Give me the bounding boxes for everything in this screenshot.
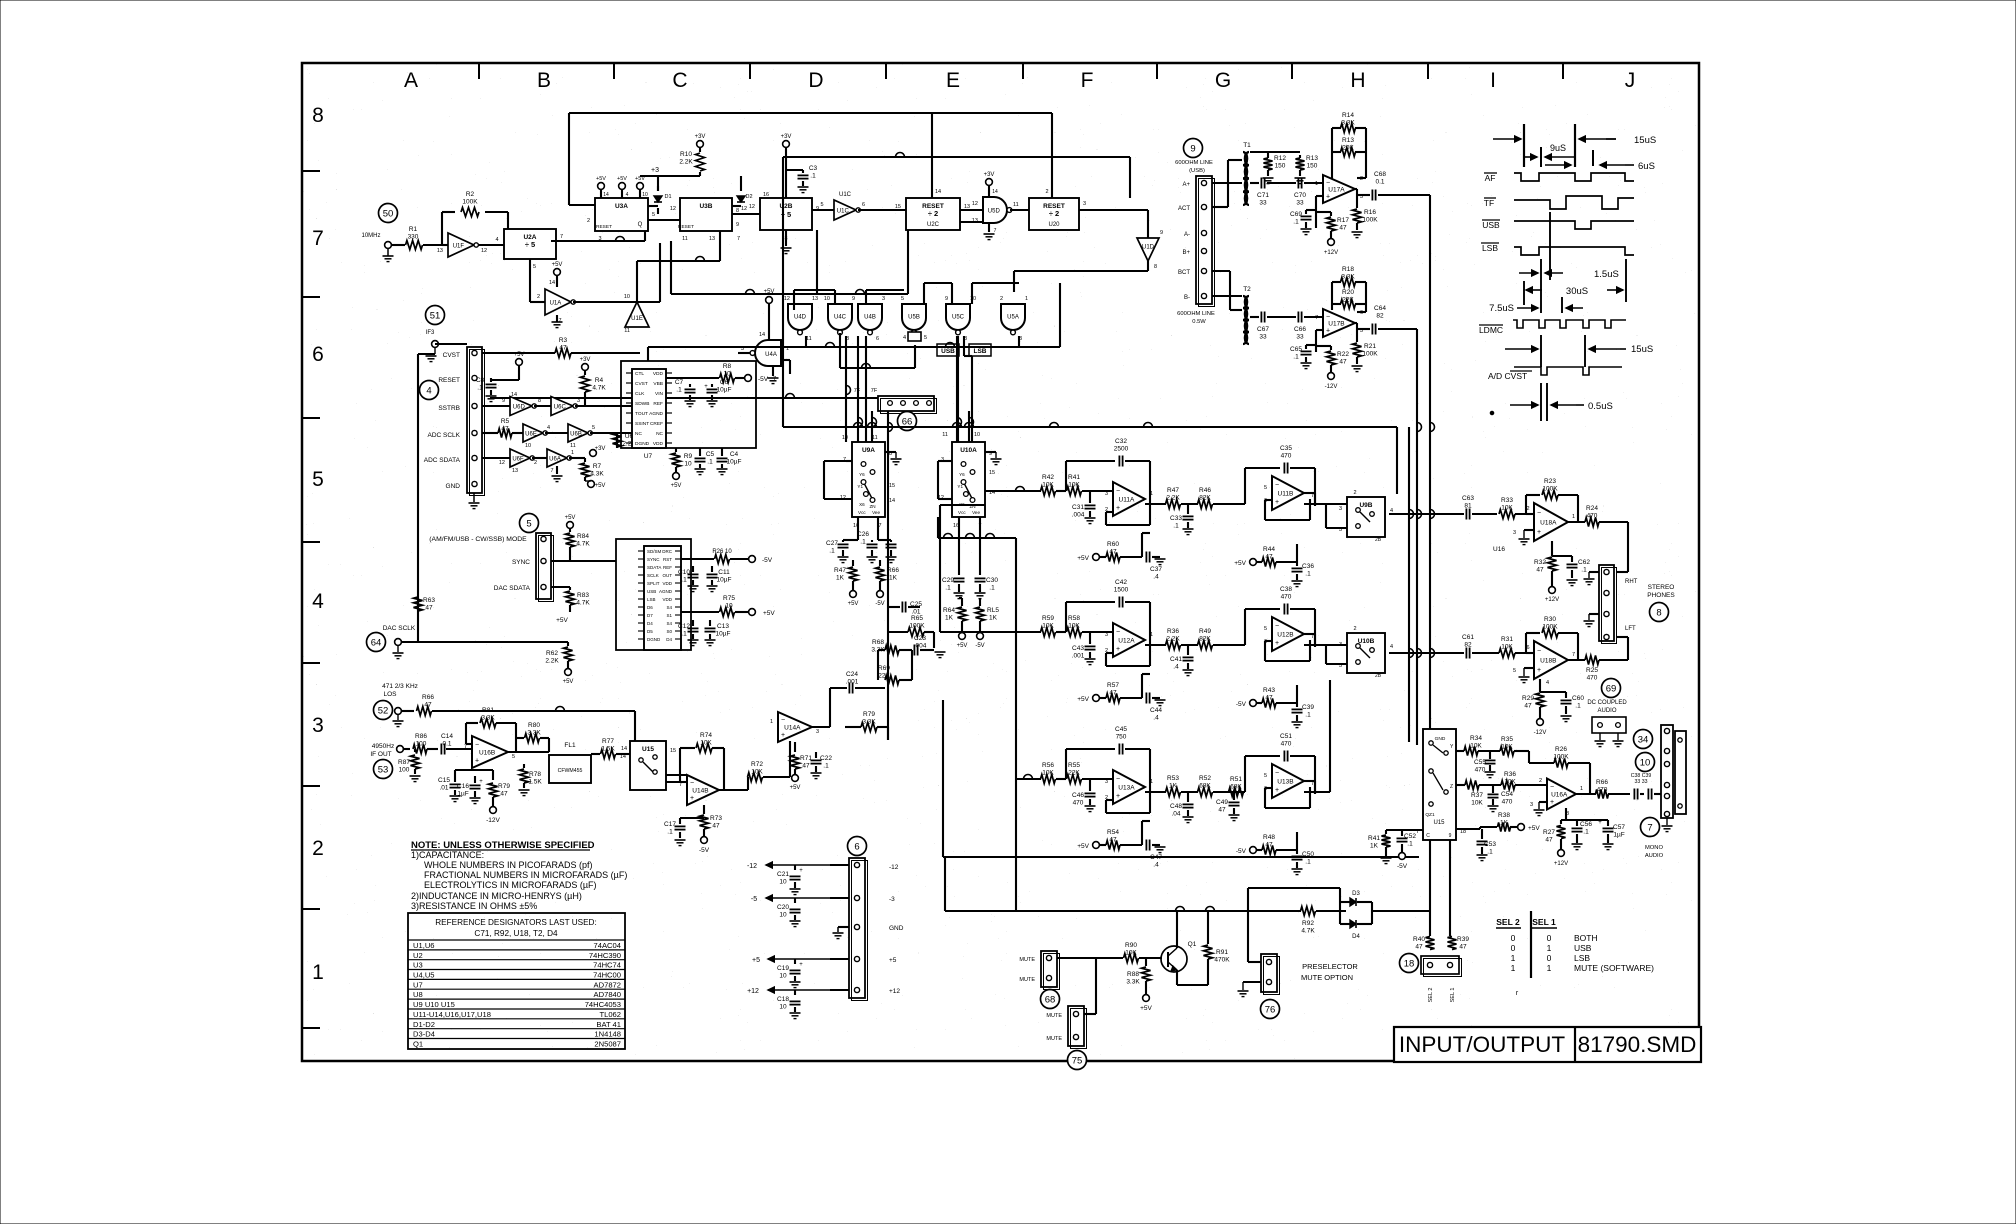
svg-text:52: 52 — [378, 706, 389, 717]
svg-text:R22: R22 — [1337, 351, 1349, 358]
svg-text:U4,U5: U4,U5 — [413, 971, 435, 980]
svg-text:U13B: U13B — [1277, 779, 1293, 786]
wire — [634, 711, 636, 753]
wire — [455, 770, 493, 776]
svg-text:74HC74: 74HC74 — [593, 961, 621, 970]
wire — [391, 244, 405, 246]
label RHT — [1625, 579, 1638, 585]
svg-text:C44: C44 — [1150, 707, 1162, 714]
svg-text:10: 10 — [842, 435, 848, 441]
wire mux left loops — [824, 461, 952, 499]
ground phones2 — [1584, 614, 1600, 627]
capacitor C56 .1 — [1572, 820, 1593, 850]
svg-text:U11A: U11A — [1119, 497, 1135, 504]
svg-text:OUT: OUT — [663, 573, 673, 578]
svg-text:5: 5 — [533, 264, 536, 270]
svg-text:3: 3 — [1105, 491, 1108, 497]
svg-text:1: 1 — [1150, 632, 1153, 638]
svg-text:.004: .004 — [914, 643, 927, 650]
svg-text:LDMC: LDMC — [1479, 325, 1503, 335]
resistor R92 4.7K — [1301, 907, 1347, 935]
resistor R2 100K feedback — [442, 191, 508, 245]
svg-text:9: 9 — [502, 398, 505, 404]
svg-text:R12: R12 — [1274, 155, 1286, 162]
wire horizontal mid bus — [490, 394, 878, 399]
ground U1A — [552, 315, 563, 328]
resistor R72 10K — [748, 741, 791, 790]
resistor R68 3.3K — [871, 639, 912, 655]
power +5V R38 — [1518, 824, 1541, 832]
resistor R65 100K — [888, 615, 934, 648]
svg-text:ELECTROLYTICS IN MICROFARADS (: ELECTROLYTICS IN MICROFARADS (µF) — [424, 880, 597, 890]
svg-text:+: + — [781, 732, 785, 739]
svg-text:C60: C60 — [1572, 695, 1584, 702]
svg-text:47: 47 — [1109, 690, 1117, 697]
inverter U1E — [624, 261, 649, 334]
svg-text:69: 69 — [1606, 684, 1617, 695]
capacitor C20 10 — [777, 898, 800, 927]
svg-text:R53: R53 — [1167, 775, 1179, 782]
svg-text:SEL 2: SEL 2 — [1428, 988, 1434, 1003]
wire U3A-U3B — [648, 219, 680, 221]
svg-text:2: 2 — [1000, 296, 1003, 302]
label SYNC — [512, 559, 530, 566]
svg-text:2.2K: 2.2K — [1166, 636, 1180, 643]
svg-text:47: 47 — [1109, 837, 1117, 844]
svg-text:20K: 20K — [1342, 145, 1354, 152]
capacitor C15 .01 — [438, 776, 460, 802]
svg-text:50: 50 — [383, 209, 394, 220]
svg-text:1µF: 1µF — [457, 791, 468, 798]
node 50 badge — [379, 204, 398, 223]
svg-text:100K: 100K — [909, 623, 925, 630]
wire ch1 input — [985, 487, 1041, 492]
svg-text:2: 2 — [1539, 778, 1542, 784]
svg-text:U5B: U5B — [908, 314, 920, 320]
svg-text:47: 47 — [802, 763, 810, 770]
resistor R12 150 — [1263, 155, 1287, 184]
resistor R66b 1K — [875, 560, 899, 607]
svg-text:C38 C39: C38 C39 — [1631, 773, 1652, 779]
connector mute 2 — [1046, 1006, 1086, 1049]
svg-text:U1C: U1C — [837, 208, 850, 214]
resistor R18 3.3K — [1332, 266, 1366, 287]
IC U8 DAC AD7840 — [638, 546, 681, 650]
svg-text:U18A: U18A — [1540, 520, 1557, 527]
power -12V U17B — [1316, 346, 1337, 390]
svg-text:D6: D6 — [647, 605, 653, 610]
svg-text:.1: .1 — [1581, 567, 1587, 574]
connector mono out 2 — [1675, 731, 1686, 814]
capacitor C27 .1 — [826, 540, 858, 563]
svg-text:AUDIO: AUDIO — [1645, 853, 1664, 859]
svg-text:1: 1 — [571, 450, 574, 456]
node 76 badge — [1261, 1000, 1280, 1019]
svg-text:10: 10 — [725, 603, 733, 610]
resistor R7 4.7K — [581, 446, 606, 481]
svg-text:.1: .1 — [1583, 829, 1589, 836]
svg-text:+5V: +5V — [565, 515, 576, 521]
svg-text:REF: REF — [653, 401, 663, 407]
svg-text:−: − — [1537, 510, 1541, 517]
capacitor C3 .1 — [786, 165, 818, 193]
svg-text:10K: 10K — [751, 769, 763, 776]
resistor R35 10K — [1500, 736, 1529, 763]
wire vertical x=1430 — [1430, 195, 1435, 735]
wire U17A feedback — [1357, 152, 1366, 178]
resistor R34 10K — [1456, 735, 1500, 756]
svg-text:C71: C71 — [1257, 192, 1269, 199]
svg-text:1K: 1K — [889, 575, 898, 582]
svg-text:(AM/FM/USB - CW/SSB) MODE: (AM/FM/USB - CW/SSB) MODE — [429, 536, 527, 543]
svg-text:SD/SM: SD/SM — [647, 549, 662, 554]
svg-text:U14A: U14A — [784, 725, 801, 732]
svg-text:DAC SCLK: DAC SCLK — [383, 625, 416, 632]
svg-text:C29: C29 — [942, 577, 954, 584]
label PRESELECTOR MUTE OPTION — [1301, 962, 1358, 982]
svg-text:C10: C10 — [678, 569, 690, 576]
svg-text:3.3K: 3.3K — [481, 715, 495, 722]
svg-text:U5D: U5D — [988, 208, 1001, 214]
svg-text:C36: C36 — [1302, 563, 1314, 570]
svg-text:+5V: +5V — [617, 176, 627, 182]
svg-text:C68: C68 — [1374, 171, 1386, 178]
op-amp U17A — [1315, 175, 1363, 203]
connector bar power — [849, 858, 868, 1001]
svg-text:100K: 100K — [1553, 754, 1569, 761]
analog mux U10A — [938, 432, 995, 529]
svg-text:1N4148: 1N4148 — [594, 1030, 621, 1039]
svg-text:E: E — [946, 69, 960, 92]
svg-text:4: 4 — [312, 590, 324, 613]
svg-text:10µF: 10µF — [727, 459, 742, 466]
inverter U6F — [499, 449, 537, 474]
svg-text:U10A: U10A — [960, 447, 977, 454]
resistor R62 2.2K — [545, 642, 573, 685]
capacitor C65 .1 — [1290, 345, 1316, 369]
diode D3 — [1340, 891, 1372, 924]
svg-text:RHT: RHT — [1625, 579, 1638, 585]
svg-text:U16B: U16B — [479, 750, 495, 757]
svg-text:10µF: 10µF — [717, 387, 732, 394]
capacitor C66 33 — [1294, 312, 1323, 341]
node 68 badge — [1041, 990, 1060, 1009]
svg-text:SYNC: SYNC — [647, 557, 660, 562]
wire U10A bottom — [938, 517, 1016, 911]
svg-text:U6D: U6D — [513, 404, 526, 410]
svg-text:.4: .4 — [1153, 574, 1159, 581]
svg-text:3: 3 — [1530, 802, 1533, 808]
svg-text:U6B: U6B — [570, 431, 582, 437]
capacitor C64 .1 — [1357, 305, 1417, 335]
terminal 53 — [397, 746, 410, 753]
capacitor C71 33 — [1250, 178, 1296, 207]
svg-text:C70: C70 — [1294, 192, 1306, 199]
resistor R88 3.3K — [1126, 958, 1150, 994]
capacitor C60 .1 — [1540, 692, 1584, 722]
label 7F — [854, 388, 878, 394]
svg-text:DGND: DGND — [635, 441, 650, 447]
analog mux U10B — [1339, 626, 1393, 679]
wire mute link — [1084, 958, 1096, 1014]
svg-text:+12V: +12V — [1554, 861, 1568, 867]
resistor R66c 470 — [1596, 779, 1631, 799]
resistor R77 1.5K — [591, 738, 630, 759]
svg-text:2.2K: 2.2K — [1166, 495, 1180, 502]
svg-text:U1C: U1C — [839, 192, 852, 198]
svg-text:+3V: +3V — [580, 357, 591, 363]
diode D4 — [1340, 911, 1372, 940]
svg-text:R35: R35 — [1501, 736, 1513, 743]
svg-text:R91: R91 — [1216, 949, 1228, 956]
svg-text:12: 12 — [670, 206, 676, 212]
wire Q1 collector — [1177, 984, 1208, 986]
svg-text:Q1: Q1 — [1188, 941, 1197, 948]
svg-text:U1F: U1F — [453, 243, 465, 249]
svg-text:14: 14 — [549, 280, 555, 286]
node 9 badge — [1184, 139, 1203, 158]
op-amp U16B input — [464, 736, 515, 768]
svg-text:AD7872: AD7872 — [594, 980, 621, 989]
svg-text:68: 68 — [1045, 995, 1056, 1006]
node 10 badge — [1636, 753, 1655, 772]
svg-text:1: 1 — [1511, 963, 1516, 973]
connector preselector — [1261, 954, 1280, 995]
capacitor C63 .1 — [1462, 495, 1474, 520]
wire — [749, 283, 1060, 347]
svg-text:SSTRB: SSTRB — [438, 405, 460, 412]
svg-text:R81: R81 — [482, 707, 494, 714]
svg-text:C: C — [672, 69, 687, 92]
svg-text:R36: R36 — [1167, 628, 1179, 635]
node 8 badge — [1650, 603, 1669, 622]
wire left bus vertical — [418, 354, 435, 642]
wire vertical x=1409 — [1409, 427, 1414, 742]
IC U2A divide-by-5 — [504, 229, 563, 259]
svg-text:14: 14 — [759, 332, 765, 338]
svg-text:C51: C51 — [1280, 733, 1292, 740]
resistor R40 47 — [1413, 936, 1434, 951]
svg-text:+5V: +5V — [552, 262, 563, 268]
svg-text:C54: C54 — [1501, 791, 1513, 798]
svg-text:0.5uS: 0.5uS — [1588, 401, 1613, 412]
waveform LDMC — [1479, 320, 1626, 335]
svg-text:U8: U8 — [413, 990, 423, 999]
inverter U6A — [547, 449, 574, 474]
svg-text:R21: R21 — [1364, 343, 1376, 350]
waveform timing 0.5uS — [1490, 383, 1613, 421]
resistor R84 4.7K — [565, 515, 591, 561]
svg-text:D1-D2: D1-D2 — [413, 1020, 435, 1029]
svg-text:C20: C20 — [777, 904, 789, 911]
ground phones1 — [1584, 572, 1600, 585]
svg-text:7: 7 — [1572, 652, 1575, 658]
connector bar DAC — [536, 533, 554, 602]
svg-text:4: 4 — [1390, 644, 1393, 650]
svg-text:.1: .1 — [989, 585, 995, 592]
svg-text:.001: .001 — [846, 679, 859, 686]
svg-text:+5V: +5V — [1077, 843, 1089, 850]
svg-text:C65: C65 — [1290, 346, 1302, 353]
label +3 — [651, 167, 659, 174]
svg-text:TL062: TL062 — [599, 1010, 621, 1019]
svg-text:+3: +3 — [651, 167, 659, 174]
svg-text:330: 330 — [408, 234, 419, 241]
svg-text:+5V: +5V — [563, 679, 574, 685]
svg-text:10K: 10K — [1504, 779, 1516, 786]
node 18 badge — [1400, 954, 1419, 973]
svg-text:U6A: U6A — [549, 456, 561, 462]
svg-text:10K: 10K — [1042, 623, 1054, 630]
label BCT — [1178, 270, 1190, 276]
svg-text:S4: S4 — [666, 605, 672, 610]
svg-text:C41: C41 — [1170, 656, 1182, 663]
svg-text:47: 47 — [1265, 695, 1273, 702]
svg-text:R26 10: R26 10 — [712, 549, 732, 555]
svg-text:MUTE: MUTE — [1019, 957, 1035, 963]
svg-text:14: 14 — [935, 189, 941, 195]
svg-text:C64: C64 — [1374, 305, 1386, 312]
svg-text:÷ 5: ÷ 5 — [525, 240, 535, 249]
svg-text:1.5K: 1.5K — [528, 779, 542, 786]
resistor R13 150 — [1295, 155, 1319, 184]
resistor R30 100K feedback — [1526, 616, 1578, 660]
svg-text:R41: R41 — [1368, 835, 1380, 842]
svg-text:R63: R63 — [423, 597, 435, 604]
svg-text:1: 1 — [1511, 953, 1516, 963]
svg-text:C31: C31 — [1072, 504, 1084, 511]
svg-text:U11-U14,U16,U17,U18: U11-U14,U16,U17,U18 — [413, 1010, 491, 1019]
svg-text:14: 14 — [511, 392, 517, 398]
svg-text:−: − — [1326, 314, 1330, 321]
label mode — [429, 536, 527, 543]
svg-text:14: 14 — [889, 498, 895, 504]
wire gate verticals to mux — [866, 283, 1019, 442]
svg-text:R62: R62 — [546, 650, 558, 657]
svg-text:+: + — [1116, 505, 1120, 512]
wire U15 pin18 row — [1456, 828, 1480, 830]
svg-text:600OHM LINE: 600OHM LINE — [1177, 311, 1215, 317]
svg-text:U5A: U5A — [1007, 314, 1019, 320]
svg-text:(USB): (USB) — [1189, 168, 1205, 174]
wire — [858, 209, 906, 211]
wire ch3 out — [1304, 680, 1330, 792]
svg-text:2: 2 — [587, 218, 590, 224]
svg-text:BCT: BCT — [1178, 270, 1190, 276]
svg-text:74HC00: 74HC00 — [593, 971, 621, 980]
svg-text:C3: C3 — [809, 165, 818, 172]
label GND — [446, 483, 461, 490]
svg-text:R1: R1 — [409, 226, 418, 233]
svg-text:+: + — [1275, 640, 1279, 647]
capacitor C30 .1 — [975, 577, 999, 599]
svg-text:CFWM455: CFWM455 — [558, 768, 583, 774]
resistor R6 2.2K — [613, 433, 637, 448]
svg-text:74AC04: 74AC04 — [594, 941, 621, 950]
svg-text:R73: R73 — [710, 815, 722, 822]
svg-text:5: 5 — [312, 468, 324, 491]
wire U10B output — [1389, 652, 1464, 654]
ground U18A pin3 — [1513, 530, 1534, 545]
svg-text:+3V: +3V — [781, 134, 792, 140]
svg-text:33: 33 — [1296, 334, 1304, 341]
resistor R16 100K — [1352, 189, 1379, 238]
svg-text:10: 10 — [779, 1004, 787, 1011]
resistor R14 3.3K — [1332, 112, 1366, 133]
svg-text:TOUT: TOUT — [635, 411, 648, 417]
svg-text:16: 16 — [763, 192, 769, 198]
svg-text:Vcc: Vcc — [858, 510, 866, 515]
row numbers 8-1 — [312, 104, 324, 984]
capacitor C62 .1 — [1552, 556, 1590, 586]
wire +5 arrow — [752, 956, 849, 964]
svg-text:C8: C8 — [476, 377, 485, 384]
svg-text:15: 15 — [889, 483, 895, 489]
svg-text:R10: R10 — [680, 151, 692, 158]
waveform vertical reference — [1549, 212, 1551, 280]
svg-text:82K: 82K — [1199, 495, 1211, 502]
capacitor C29 .1 — [942, 577, 964, 599]
svg-text:U17A: U17A — [1328, 187, 1345, 194]
svg-text:GND: GND — [446, 483, 461, 490]
svg-text:R84: R84 — [577, 533, 589, 540]
svg-text:4.7K: 4.7K — [1301, 928, 1315, 935]
svg-text:R77: R77 — [602, 738, 614, 745]
svg-text:7: 7 — [312, 227, 324, 250]
svg-text:R86: R86 — [415, 733, 427, 740]
svg-text:4: 4 — [426, 386, 431, 397]
svg-text:R68: R68 — [872, 639, 884, 646]
svg-text:3)RESISTANCE IN OHMS ±5%: 3)RESISTANCE IN OHMS ±5% — [411, 901, 537, 911]
svg-text:81790.SMD: 81790.SMD — [1578, 1032, 1697, 1057]
svg-text:11: 11 — [942, 432, 948, 438]
NAND U5C — [945, 296, 976, 342]
svg-text:C71, R92, U18, T2, D4: C71, R92, U18, T2, D4 — [474, 929, 558, 938]
IC U2B divide-by-5 — [749, 192, 819, 242]
power +3V U5D — [984, 172, 998, 240]
svg-text:A-: A- — [1184, 232, 1190, 238]
svg-text:5: 5 — [901, 296, 904, 302]
svg-text:15uS: 15uS — [1634, 135, 1656, 146]
svg-text:R56: R56 — [1042, 762, 1054, 769]
svg-text:1: 1 — [1025, 296, 1028, 302]
svg-text:2.2K: 2.2K — [679, 159, 693, 166]
frame tick marks — [302, 63, 1563, 1028]
svg-text:47: 47 — [501, 426, 509, 433]
op-amp U14A — [770, 712, 819, 742]
svg-text:10K: 10K — [700, 740, 712, 747]
svg-text:C7: C7 — [675, 379, 684, 386]
svg-text:AD7840: AD7840 — [594, 990, 621, 999]
power -5V U14B — [699, 837, 710, 854]
svg-text:.1: .1 — [1305, 712, 1311, 719]
wire gates outputs — [794, 283, 952, 442]
label LSB box — [969, 344, 991, 356]
svg-text:+: + — [799, 868, 803, 874]
svg-text:12: 12 — [741, 206, 747, 212]
svg-text:-12V: -12V — [486, 817, 500, 824]
svg-text:13: 13 — [512, 468, 518, 474]
wire — [435, 344, 510, 353]
svg-text:+5: +5 — [889, 957, 897, 964]
svg-text:47: 47 — [1265, 554, 1273, 561]
svg-text:B+: B+ — [1182, 250, 1190, 256]
wire — [812, 202, 834, 210]
svg-text:C49: C49 — [1216, 799, 1228, 806]
resistor R15 1K — [975, 598, 999, 649]
capacitor C14 0.1 — [441, 733, 472, 755]
svg-text:−: − — [690, 780, 694, 787]
